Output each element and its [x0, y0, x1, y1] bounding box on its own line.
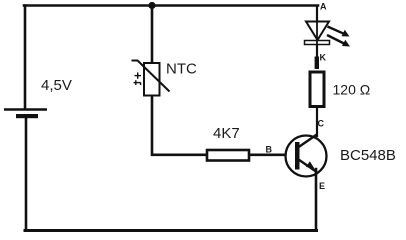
svg-text:BC548B: BC548B — [340, 147, 396, 164]
svg-text:NTC: NTC — [166, 61, 197, 78]
svg-text:4K7: 4K7 — [213, 125, 240, 142]
svg-text:K: K — [320, 53, 327, 63]
svg-text:120 Ω: 120 Ω — [333, 82, 371, 98]
svg-text:E: E — [319, 181, 325, 191]
svg-text:4,5V: 4,5V — [41, 77, 72, 94]
svg-text:A: A — [320, 2, 327, 12]
svg-text:B: B — [266, 145, 273, 155]
svg-text:C: C — [318, 119, 325, 129]
